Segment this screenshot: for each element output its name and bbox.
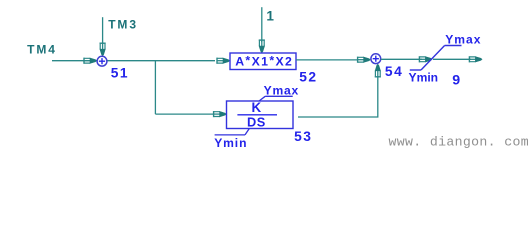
wire summer 54 output [381, 58, 422, 60]
svg-text:1: 1 [266, 9, 274, 24]
svg-text:www. diangon. com: www. diangon. com [389, 134, 529, 149]
arrowhead into summer 54 bottom [375, 64, 381, 77]
wire through limiter [433, 58, 471, 60]
svg-text:Ymin: Ymin [214, 136, 247, 150]
wire constant 1 input [261, 7, 263, 42]
wire branch to block 53 [155, 113, 214, 115]
Ymin limit line on block 53 [215, 128, 250, 135]
arrowhead into summer 51 top [100, 43, 106, 56]
wire branch vertical [154, 61, 156, 114]
limiter Ymax cap line [445, 45, 462, 47]
arrowhead into summer 54 [358, 57, 371, 63]
Ymax limit line on block 53 [259, 96, 293, 101]
block 53 integrator K/DS [227, 100, 294, 130]
svg-text:A*X1*X2: A*X1*X2 [235, 53, 293, 68]
svg-text:Ymin: Ymin [409, 71, 439, 85]
svg-text:51: 51 [111, 65, 129, 80]
svg-text:K: K [252, 100, 262, 115]
svg-text:Ymax: Ymax [264, 84, 299, 98]
arrowhead into block 53 [214, 111, 227, 117]
arrowhead into limiter [419, 56, 432, 62]
arrowhead into summer 51 [84, 58, 97, 64]
limiter Ymin cap line [410, 69, 421, 71]
wire block 52 to summer 54 [296, 59, 357, 61]
svg-text:9: 9 [452, 72, 460, 88]
svg-text:DS: DS [247, 115, 266, 130]
arrowhead into block 52 top [259, 40, 265, 53]
summing junction 51 [97, 56, 107, 66]
svg-text:TM4: TM4 [27, 43, 57, 57]
summing junction 54 [371, 54, 381, 64]
svg-text:TM3: TM3 [108, 18, 138, 32]
block 52 multiplier A*X1*X2 [230, 53, 296, 70]
wire TM3 vertical input [102, 17, 104, 44]
limiter diagonal [421, 46, 445, 71]
wire TM4 input [52, 60, 215, 62]
svg-text:Ymax: Ymax [445, 33, 481, 47]
wire block 53 output [298, 76, 378, 117]
svg-text:52: 52 [299, 69, 317, 84]
svg-text:53: 53 [294, 129, 312, 144]
svg-text:54: 54 [385, 64, 403, 79]
arrowhead output 9 [469, 56, 482, 62]
arrowhead into block 52 [217, 58, 230, 64]
